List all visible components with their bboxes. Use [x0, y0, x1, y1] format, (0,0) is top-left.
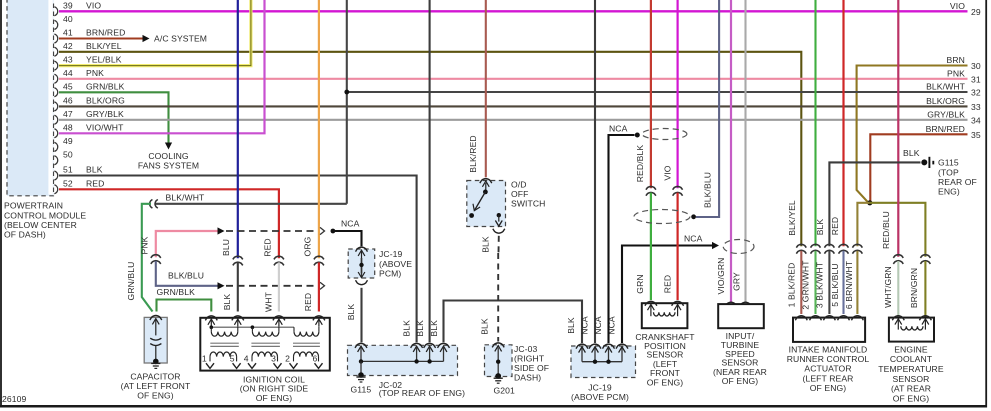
- wire BLK/YEL pin42 right and down to actuator pin1: [59, 52, 801, 246]
- svg-text:BLK/BLU: BLK/BLU: [168, 271, 204, 281]
- svg-text:33: 33: [971, 102, 981, 112]
- svg-text:48: 48: [63, 122, 73, 132]
- svg-text:COOLANT: COOLANT: [890, 354, 933, 364]
- shield ellipse around GRN RED: [634, 210, 690, 224]
- junction connector JC-03 box: [485, 345, 513, 377]
- svg-text:30: 30: [971, 61, 981, 71]
- O/D off switch S1: [467, 181, 506, 227]
- svg-text:GRY/BLK: GRY/BLK: [86, 109, 124, 119]
- page right border: [985, 0, 987, 408]
- svg-text:50: 50: [63, 149, 73, 159]
- wire BLK/RED from top to O/D switch: [485, 0, 487, 177]
- junction connector JC-02 box: [348, 345, 458, 375]
- svg-text:BLK: BLK: [815, 219, 825, 236]
- svg-text:BLK: BLK: [86, 165, 103, 175]
- svg-text:(ABOVE PCM): (ABOVE PCM): [571, 392, 629, 402]
- svg-text:35: 35: [971, 130, 981, 140]
- wire RED into coil: [318, 262, 320, 311]
- svg-text:BRN/RED: BRN/RED: [86, 28, 125, 38]
- PCM pin 46: [54, 102, 57, 111]
- svg-text:SWITCH: SWITCH: [511, 199, 546, 209]
- svg-text:OF ENG): OF ENG): [810, 383, 847, 393]
- svg-text:OF ENG): OF ENG): [256, 393, 293, 403]
- svg-text:1: 1: [202, 354, 207, 364]
- wire BLK/ORG pin46 to pin33: [59, 105, 968, 107]
- svg-text:29: 29: [971, 7, 981, 17]
- wire BLK from JC-02 up to JC-19 lower: [444, 301, 583, 344]
- svg-text:YEL/BLK: YEL/BLK: [86, 55, 122, 65]
- svg-text:1 BLK/RED: 1 BLK/RED: [787, 263, 797, 308]
- svg-text:OF ENG): OF ENG): [647, 378, 684, 388]
- svg-text:GRN/BLU: GRN/BLU: [126, 262, 136, 301]
- PCM pin 45: [54, 88, 57, 97]
- svg-text:(TOP REAR OF ENG): (TOP REAR OF ENG): [379, 388, 465, 398]
- ground G115 right: [921, 159, 927, 165]
- PCM pin 39: [54, 7, 57, 16]
- svg-text:BLK: BLK: [222, 294, 232, 311]
- crankshaft position sensor: [642, 303, 688, 328]
- wire ORG from top to coil connector: [318, 0, 320, 258]
- svg-text:INTAKE MANIFOLD: INTAKE MANIFOLD: [789, 344, 868, 354]
- svg-text:JC-19: JC-19: [379, 249, 403, 259]
- svg-text:PNK: PNK: [140, 236, 150, 254]
- svg-text:PCM): PCM): [379, 268, 401, 278]
- svg-text:41: 41: [63, 28, 73, 38]
- actuator pin wires: [800, 251, 802, 314]
- powertrain control module (PCM) connector box: [7, 0, 54, 196]
- engine coolant temperature sensor: [889, 318, 934, 342]
- dashed BLK wire from O/D switch to JC-03: [498, 236, 500, 253]
- JC-02 internal bus: [360, 348, 362, 362]
- svg-text:39: 39: [63, 0, 73, 10]
- wire BLU from top to coil connector: [237, 0, 239, 258]
- wire BRN/RED pin41 to A/C SYSTEM arrow: [59, 37, 143, 39]
- svg-text:TEMPERATURE: TEMPERATURE: [878, 364, 944, 374]
- shield ellipse input sensor: [723, 240, 754, 254]
- wire BLK/WHT pin32 junction to top and to capacitor splice: [347, 91, 968, 93]
- svg-text:32: 32: [971, 88, 981, 98]
- svg-text:BLK/WHT: BLK/WHT: [166, 193, 206, 203]
- svg-text:GRY: GRY: [732, 272, 742, 291]
- svg-text:RED: RED: [830, 217, 840, 235]
- svg-text:RED: RED: [263, 238, 273, 256]
- svg-text:VIO/WHT: VIO/WHT: [86, 122, 124, 132]
- svg-text:6 BRN/WHT: 6 BRN/WHT: [844, 260, 854, 309]
- wire WHT into coil: [278, 262, 280, 311]
- PCM pin 49: [54, 142, 57, 151]
- wire BLK from top down to JC-02: [429, 0, 431, 342]
- crank sensor connectors RED/BLK->GRN VIO->RED: [646, 186, 656, 189]
- svg-text:GRN: GRN: [635, 274, 645, 293]
- svg-text:49: 49: [63, 136, 73, 146]
- coil primary common bus: [211, 326, 294, 328]
- svg-text:SENSOR: SENSOR: [893, 374, 930, 384]
- svg-text:NCA: NCA: [684, 233, 703, 243]
- svg-text:46: 46: [63, 95, 73, 105]
- junction connector JC-19 lower box: [571, 346, 636, 378]
- wire BRN/RED pin35 down to junction: [870, 134, 967, 203]
- coil secondary windings: [210, 352, 237, 357]
- svg-text:PNK: PNK: [86, 68, 104, 78]
- wire VIO from top to crank connector: [676, 0, 678, 188]
- wire PNK pin44 to pin31: [59, 78, 968, 80]
- svg-text:G115: G115: [938, 157, 959, 167]
- svg-text:O/D: O/D: [511, 179, 527, 189]
- svg-text:ACTUATOR: ACTUATOR: [804, 363, 851, 373]
- svg-text:BLK: BLK: [346, 304, 356, 321]
- wire GRN/BLK capacitor to coil pin1: [157, 300, 212, 312]
- svg-text:VIO: VIO: [663, 165, 673, 180]
- svg-text:ORG: ORG: [303, 236, 313, 256]
- svg-text:(BELOW CENTER: (BELOW CENTER: [4, 220, 77, 230]
- svg-text:BLK/ORG: BLK/ORG: [926, 96, 965, 106]
- svg-text:45: 45: [63, 81, 73, 91]
- svg-text:BLK/YEL: BLK/YEL: [787, 200, 797, 236]
- svg-text:BLK: BLK: [481, 236, 491, 253]
- svg-text:(AT REAR: (AT REAR: [891, 384, 931, 394]
- input sensor pin connectors: [725, 302, 737, 307]
- svg-text:RED: RED: [663, 275, 673, 293]
- svg-text:BLK: BLK: [480, 318, 490, 335]
- input/turbine speed sensor: [718, 304, 764, 328]
- svg-text:REAR OF: REAR OF: [938, 177, 977, 187]
- svg-text:SIDE OF: SIDE OF: [514, 363, 549, 373]
- svg-text:FANS SYSTEM: FANS SYSTEM: [138, 161, 199, 171]
- svg-text:NCA: NCA: [609, 124, 628, 134]
- JC-02 pin connectors: [355, 343, 367, 347]
- svg-text:BRN/RED: BRN/RED: [926, 124, 965, 134]
- svg-text:ENGINE: ENGINE: [894, 344, 928, 354]
- svg-text:BLK: BLK: [903, 148, 920, 158]
- svg-text:VIO/GRN: VIO/GRN: [716, 258, 726, 295]
- svg-text:GRN/BLK: GRN/BLK: [157, 287, 196, 297]
- PCM pin 43: [54, 61, 57, 70]
- wire BRN/WHT from junction to actuator pin6: [857, 203, 869, 246]
- svg-text:5 BLK/BLU: 5 BLK/BLU: [830, 263, 840, 306]
- svg-text:PNK: PNK: [947, 68, 965, 78]
- wire BLK/BLU from splice to dashed arrow: [156, 261, 219, 286]
- coil cores: [210, 342, 239, 344]
- wire BLK pin51 right and down to JC-02: [59, 176, 417, 343]
- wire VIO pin39 to pin29: [59, 10, 968, 12]
- svg-text:5: 5: [230, 354, 235, 364]
- JC-19 lower pin connectors: [576, 344, 588, 349]
- svg-text:3 BLK/WHT: 3 BLK/WHT: [814, 261, 824, 308]
- dashed continuation arrow PNK / NCA to JC-19: [218, 227, 225, 234]
- PCM pin 41: [54, 34, 57, 43]
- wire GRN from top to actuator pin2: [814, 0, 816, 246]
- svg-text:BLK: BLK: [415, 320, 425, 337]
- intake manifold runner control actuator: [793, 318, 865, 342]
- svg-text:OFF: OFF: [511, 189, 528, 199]
- wire RED/BLU from top to coolant connector: [897, 0, 899, 257]
- svg-text:G115: G115: [351, 384, 372, 394]
- wire BRN pin30 down to junction: [857, 66, 968, 203]
- svg-text:CONTROL MODULE: CONTROL MODULE: [4, 210, 86, 220]
- svg-text:OF ENG): OF ENG): [893, 393, 930, 403]
- svg-text:BLK: BLK: [566, 317, 576, 334]
- svg-text:52: 52: [63, 178, 73, 188]
- connector splice BLK/WHT to GRN/BLU: [150, 199, 153, 208]
- svg-text:RED: RED: [303, 293, 313, 311]
- wire BRN/GRN to coolant sensor: [924, 261, 926, 318]
- PCM pin 47: [54, 115, 57, 124]
- svg-text:JC-03: JC-03: [514, 344, 538, 354]
- svg-text:2 GRN/WHT: 2 GRN/WHT: [801, 260, 811, 310]
- svg-text:WHT: WHT: [264, 291, 274, 312]
- svg-text:WHT/GRN: WHT/GRN: [883, 266, 893, 308]
- svg-text:G201: G201: [494, 385, 516, 395]
- svg-text:RED/BLU: RED/BLU: [881, 211, 891, 249]
- svg-text:POWERTRAIN: POWERTRAIN: [4, 201, 63, 211]
- junction node brn: [867, 200, 872, 205]
- PCM pin 52: [54, 185, 57, 194]
- svg-text:GRN/BLK: GRN/BLK: [86, 81, 125, 91]
- wire VIO/GRN from top to input sensor: [730, 0, 732, 303]
- NCA arrow to crank shield: [609, 135, 635, 343]
- wire NCA from top down to JC-19: [594, 0, 596, 343]
- svg-text:4: 4: [244, 354, 249, 364]
- actuator pin connectors: [796, 244, 806, 247]
- svg-text:NCA: NCA: [580, 316, 590, 335]
- svg-text:BLK/WHT: BLK/WHT: [926, 82, 966, 92]
- PCM pin 48: [54, 129, 57, 138]
- svg-text:3: 3: [271, 354, 276, 364]
- PCM pin 40: [54, 20, 57, 29]
- PCM pin 51: [54, 171, 57, 180]
- wire GRN to crank sensor: [650, 193, 652, 300]
- svg-text:OF ENG): OF ENG): [722, 376, 759, 386]
- svg-text:VIO: VIO: [950, 1, 965, 11]
- wire VIO/WHT pin48 up to top edge: [59, 0, 265, 133]
- svg-text:DASH): DASH): [514, 372, 541, 382]
- svg-text:44: 44: [63, 68, 73, 78]
- svg-text:34: 34: [971, 115, 981, 125]
- svg-text:6: 6: [313, 354, 318, 364]
- svg-text:RED/BLK: RED/BLK: [635, 145, 645, 183]
- svg-text:BLK: BLK: [429, 320, 439, 337]
- svg-text:47: 47: [63, 109, 73, 119]
- svg-text:BLU: BLU: [221, 239, 231, 256]
- wire GRN/BLU from splice down to capacitor: [142, 204, 153, 312]
- svg-text:26109: 26109: [2, 394, 27, 404]
- svg-text:BLK/BLU: BLK/BLU: [703, 172, 713, 208]
- junction connector JC-19 upper box: [348, 249, 375, 278]
- wire GRY/BLK pin47 to pin34: [59, 119, 968, 121]
- svg-text:BLK: BLK: [402, 320, 412, 337]
- connector splice PNK to BLK/BLU: [151, 255, 161, 258]
- page bottom border: [0, 405, 987, 408]
- svg-text:(ABOVE: (ABOVE: [379, 259, 412, 269]
- PCM pin 44: [54, 74, 57, 83]
- svg-text:NCA: NCA: [593, 316, 603, 335]
- wire GRN/BLK pin45 down to cooling fans arrow: [59, 92, 169, 142]
- svg-text:(LEFT REAR: (LEFT REAR: [803, 373, 854, 383]
- wire PNK from splice to dashed arrow: [156, 231, 219, 257]
- svg-text:BRN/GRN: BRN/GRN: [909, 268, 919, 308]
- svg-text:31: 31: [971, 74, 981, 84]
- wire RED/BLK from top to crank connector: [650, 0, 652, 188]
- wire RED to crank sensor: [676, 193, 678, 300]
- svg-text:RED: RED: [86, 178, 104, 188]
- svg-text:(TOP: (TOP: [938, 167, 959, 177]
- coil primary windings: [210, 327, 212, 331]
- wire WHT/GRN to coolant sensor: [897, 261, 899, 318]
- wire RED from top to actuator pin5: [842, 0, 844, 246]
- wire BLK actuator pin3 to G115 ground: [829, 162, 920, 246]
- svg-text:JC-19: JC-19: [588, 382, 612, 392]
- ignition coil T1: [200, 318, 329, 371]
- svg-text:BLK/RED: BLK/RED: [468, 135, 478, 172]
- svg-text:GRY/BLK: GRY/BLK: [927, 109, 965, 119]
- svg-text:A/C SYSTEM: A/C SYSTEM: [154, 33, 207, 43]
- coil input connectors BLU->BLK RED->WHT ORG->RED: [233, 256, 243, 259]
- svg-text:40: 40: [63, 14, 73, 24]
- svg-text:BLK/ORG: BLK/ORG: [86, 95, 125, 105]
- wire GRY from top to input sensor: [744, 0, 746, 303]
- NCA arrow to input shield: [622, 246, 713, 344]
- svg-text:43: 43: [63, 55, 73, 65]
- svg-text:BLK/YEL: BLK/YEL: [86, 41, 122, 51]
- PCM pin 50: [54, 156, 57, 165]
- svg-text:COOLING: COOLING: [148, 151, 189, 161]
- JC-19 upper wire and connectors: [356, 247, 368, 252]
- capacitor C1: [144, 317, 167, 363]
- svg-text:ENG): ENG): [938, 186, 960, 196]
- svg-text:(RIGHT: (RIGHT: [514, 353, 545, 363]
- svg-text:2: 2: [285, 354, 290, 364]
- wire BLK/BLU from top to shield dot: [696, 0, 719, 217]
- svg-text:VIO: VIO: [86, 0, 101, 10]
- wire BRN/GRN from junction to coolant sensor: [870, 203, 926, 257]
- svg-text:42: 42: [63, 41, 73, 51]
- svg-text:NCA: NCA: [341, 218, 360, 228]
- PCM pin 42: [54, 47, 57, 56]
- svg-text:BRN: BRN: [947, 55, 965, 65]
- svg-text:CAPACITOR: CAPACITOR: [130, 371, 180, 381]
- wire YEL/BLK pin43 up to top edge: [59, 0, 251, 66]
- dashed continuation arrow BLK/BLU: [218, 282, 225, 289]
- page left border: [0, 0, 2, 408]
- shield ellipse crank: [642, 129, 687, 140]
- svg-text:OF DASH): OF DASH): [4, 230, 46, 240]
- wire BLK into coil: [237, 262, 239, 311]
- wire RED pin52 right and down to coil connector: [59, 189, 279, 258]
- svg-text:OF ENG): OF ENG): [137, 390, 174, 400]
- svg-text:51: 51: [63, 165, 73, 175]
- svg-text:(AT LEFT FRONT: (AT LEFT FRONT: [121, 381, 191, 391]
- coolant sensor connectors: [893, 255, 903, 258]
